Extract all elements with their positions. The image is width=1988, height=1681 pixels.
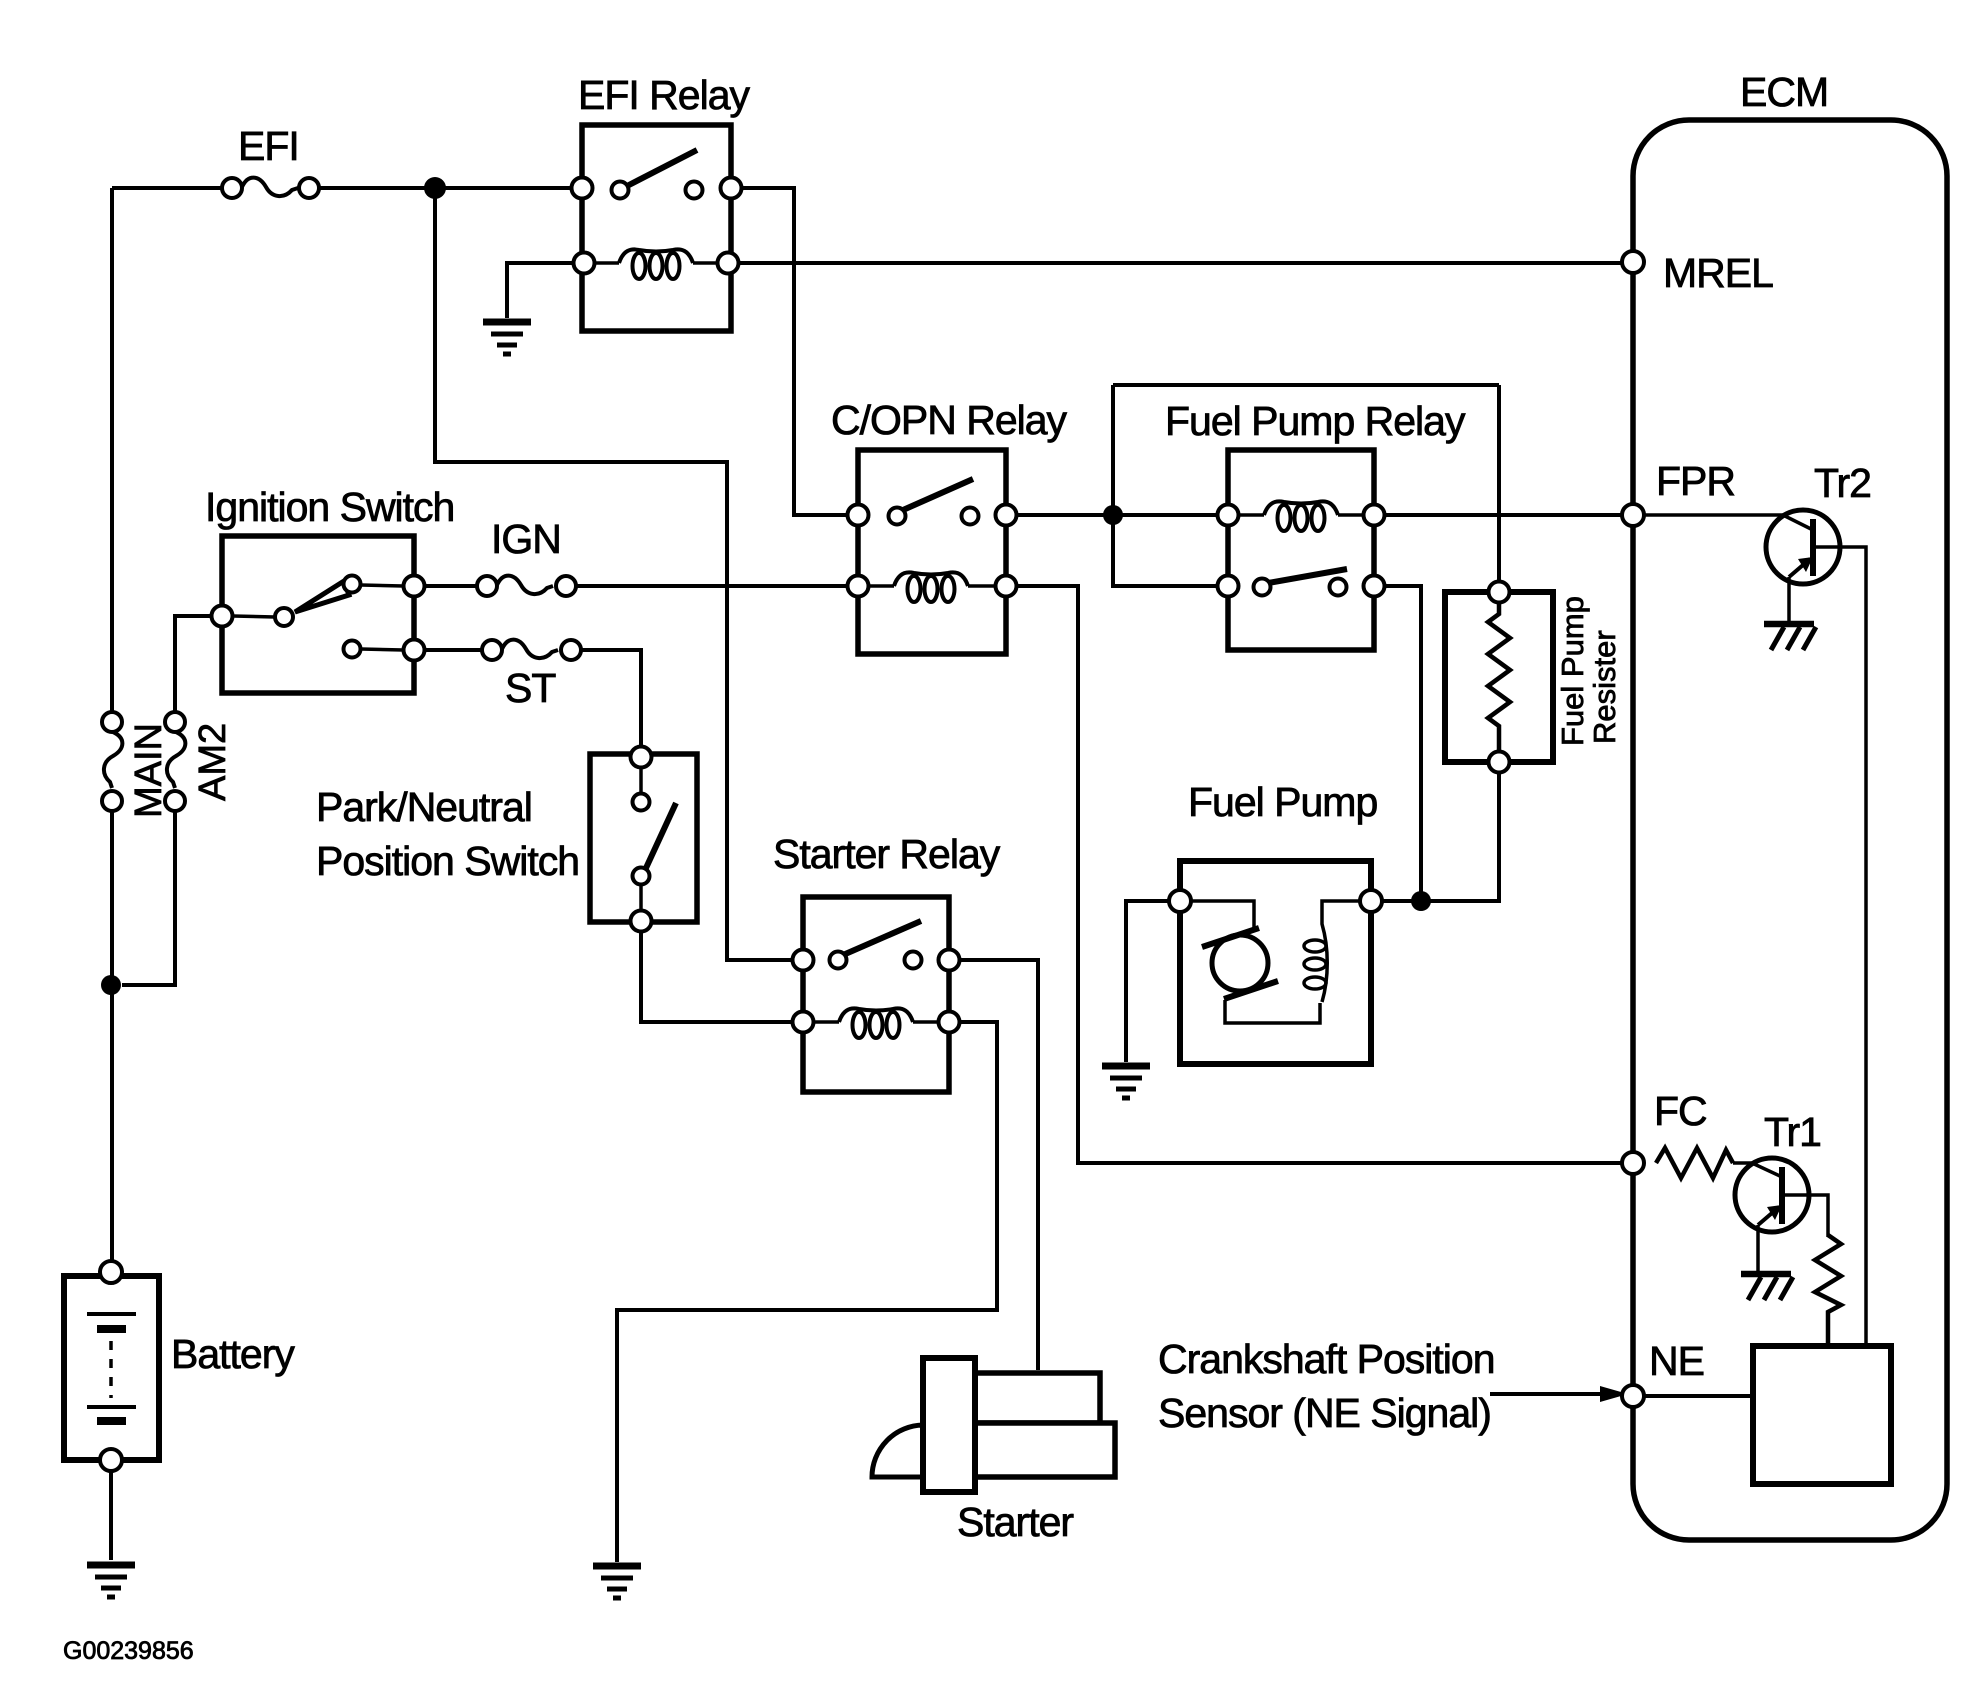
svg-text:NE: NE [1649,1338,1704,1384]
svg-text:Position Switch: Position Switch [316,838,579,884]
svg-text:C/OPN Relay: C/OPN Relay [831,397,1068,443]
svg-text:Ignition Switch: Ignition Switch [205,484,454,530]
svg-text:ST: ST [505,665,556,711]
svg-text:AM2: AM2 [192,723,234,801]
svg-text:Fuel Pump Relay: Fuel Pump Relay [1165,398,1466,444]
svg-text:Park/Neutral: Park/Neutral [316,784,532,830]
svg-text:Tr2: Tr2 [1814,460,1871,506]
svg-text:Tr1: Tr1 [1764,1109,1821,1155]
svg-text:FPR: FPR [1656,458,1735,504]
svg-text:Starter Relay: Starter Relay [773,831,1001,877]
svg-text:Resister: Resister [1587,630,1622,744]
svg-text:Crankshaft Position: Crankshaft Position [1158,1336,1495,1382]
svg-text:Starter: Starter [957,1499,1073,1545]
svg-text:ECM: ECM [1740,69,1828,115]
svg-text:Battery: Battery [171,1331,295,1377]
svg-text:EFI Relay: EFI Relay [578,72,750,118]
svg-text:FC: FC [1654,1088,1707,1134]
svg-text:MREL: MREL [1663,250,1773,296]
svg-text:Fuel Pump: Fuel Pump [1555,596,1590,746]
svg-text:Sensor (NE Signal): Sensor (NE Signal) [1158,1390,1491,1436]
svg-text:Fuel Pump: Fuel Pump [1188,779,1377,825]
svg-text:IGN: IGN [491,516,561,562]
svg-text:G00239856: G00239856 [63,1637,194,1665]
svg-text:MAIN: MAIN [128,723,170,818]
svg-text:EFI: EFI [238,123,299,169]
